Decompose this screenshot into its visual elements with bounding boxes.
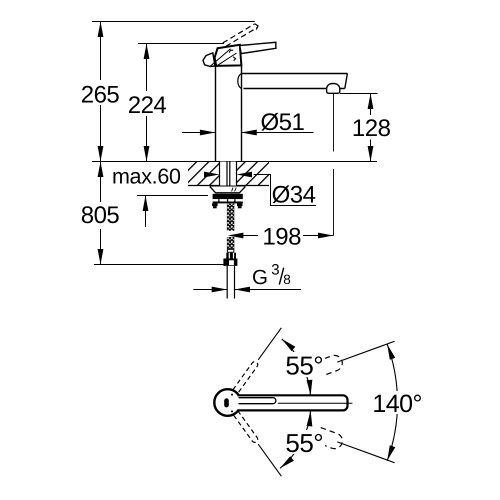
mounting nut black band xyxy=(213,194,243,199)
svg-text:198: 198 xyxy=(262,224,301,251)
head interior lines xyxy=(210,49,236,67)
dim 805 xyxy=(100,162,102,265)
svg-text:224: 224 xyxy=(128,92,167,119)
top view circle xyxy=(214,389,241,416)
svg-text:Ø34: Ø34 xyxy=(272,182,316,209)
label 55 lower xyxy=(284,430,325,454)
head marks xyxy=(229,50,235,61)
lever arm xyxy=(240,42,276,53)
55 lower boundary line xyxy=(258,444,281,476)
deck line xyxy=(92,161,377,163)
dim 198 xyxy=(243,235,334,237)
140 lower boundary line xyxy=(337,442,394,463)
O34 leader xyxy=(254,175,316,206)
svg-text:140°: 140° xyxy=(372,390,422,418)
phantom lever 55 down xyxy=(233,411,284,478)
dashed raised lever xyxy=(223,24,258,46)
braided hose xyxy=(227,204,234,249)
svg-text:max.60: max.60 xyxy=(112,165,181,189)
label 140 xyxy=(372,391,423,414)
phantom spout tip up xyxy=(315,334,397,377)
lever dot xyxy=(224,398,229,407)
svg-text:8: 8 xyxy=(283,272,291,287)
deck hatch xyxy=(188,162,269,185)
dim 265 xyxy=(100,22,102,162)
aerator xyxy=(327,84,340,94)
shank xyxy=(220,162,237,186)
label 805 xyxy=(80,202,120,226)
svg-text:55°: 55° xyxy=(285,351,323,381)
dim O34 arrows xyxy=(204,172,220,178)
spout root ellipse xyxy=(238,74,242,89)
55 arc lower xyxy=(280,410,311,468)
phantom lever 55 up xyxy=(233,326,284,393)
phantom spout tip down xyxy=(315,428,397,471)
label 128 xyxy=(353,117,390,139)
top reference line xyxy=(92,21,255,23)
55 arc upper xyxy=(282,339,311,396)
max60 ref line xyxy=(137,195,208,197)
dim 128 xyxy=(370,94,372,162)
crimp sleeve xyxy=(227,248,234,253)
body xyxy=(216,65,242,162)
svg-text:128: 128 xyxy=(352,115,391,142)
cone detail xyxy=(232,188,237,192)
bolt right xyxy=(237,203,243,206)
extension line outlet xyxy=(333,94,335,236)
lever top view xyxy=(239,398,276,404)
dash dots inside circle xyxy=(231,394,233,396)
spout bar top view xyxy=(238,395,348,410)
224 reference line xyxy=(138,43,224,45)
head knob xyxy=(203,53,215,67)
hose end fitting xyxy=(226,253,236,259)
head cap xyxy=(215,45,242,66)
G38 slash xyxy=(279,268,283,285)
max60 arrow xyxy=(145,196,147,228)
escutcheon cone xyxy=(210,187,246,193)
washer white stripe xyxy=(213,199,243,201)
spout top xyxy=(242,73,348,75)
dim 224 xyxy=(146,44,148,162)
140 arc xyxy=(387,344,397,461)
connection tube xyxy=(227,266,234,299)
hose connector nut xyxy=(223,259,237,266)
svg-text:55°: 55° xyxy=(285,428,323,458)
spout bottom xyxy=(244,88,345,90)
label 224 xyxy=(127,92,167,116)
label 55 upper xyxy=(284,352,325,377)
dim G38 xyxy=(193,289,227,291)
label max60 xyxy=(108,166,184,186)
spout bevel xyxy=(345,74,348,89)
deck bottom line xyxy=(188,185,269,187)
text labels, white-backed xyxy=(80,81,423,458)
svg-text:265: 265 xyxy=(81,81,120,108)
lower black band xyxy=(213,202,243,204)
55 upper boundary line xyxy=(258,328,281,360)
dim O51 xyxy=(182,132,215,134)
shank mask xyxy=(219,162,236,186)
spout centerline xyxy=(278,402,353,404)
805 bottom ref line xyxy=(94,264,223,266)
bolt left xyxy=(212,203,218,206)
svg-text:Ø51: Ø51 xyxy=(260,109,304,136)
svg-text:805: 805 xyxy=(81,202,120,229)
dim 128 ref xyxy=(340,93,378,95)
label 265 xyxy=(80,81,120,105)
svg-text:G: G xyxy=(252,266,268,289)
escutcheon cap xyxy=(210,186,246,188)
140 upper boundary line xyxy=(337,341,394,362)
svg-text:3: 3 xyxy=(271,262,279,279)
